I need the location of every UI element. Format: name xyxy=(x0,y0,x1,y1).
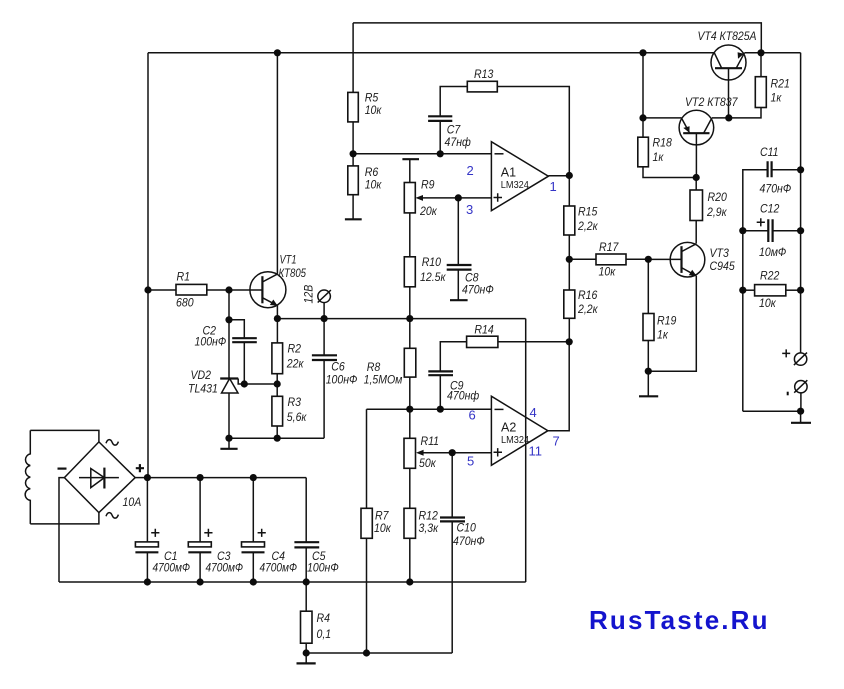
wire R11 top lead xyxy=(409,409,411,438)
shunt regulator VD2 TL431 xyxy=(188,368,238,396)
wire VT2 drive node x=643 from rail down to R18 xyxy=(642,53,644,137)
bridge plus sign xyxy=(136,464,144,472)
capacitor C12 electrolytic xyxy=(757,202,787,260)
wire R16 bottom to feedback node xyxy=(568,318,570,342)
terminal T-bar above R9 xyxy=(402,158,419,160)
svg-text:R21: R21 xyxy=(771,77,790,91)
resistor R14 xyxy=(467,323,498,348)
svg-text:10к: 10к xyxy=(599,265,617,279)
resistor R18 xyxy=(638,136,672,167)
bridge AC squiggle bottom xyxy=(106,513,118,519)
wire R14 left lead / C9 top xyxy=(440,342,466,372)
arrow into R9 wiper xyxy=(415,195,423,201)
wire VT2 base xyxy=(643,117,681,119)
wire minus terminal stub xyxy=(800,393,802,411)
transformer secondary winding xyxy=(25,430,30,524)
wire C1 top lead (bus x=147.4) xyxy=(146,478,148,542)
capacitor C6 xyxy=(312,355,358,386)
potentiometer R11 xyxy=(404,434,439,470)
svg-text:100нФ: 100нФ xyxy=(195,335,227,349)
resistor R12 xyxy=(404,508,439,538)
ground at output minus xyxy=(800,411,802,422)
bridge diode symbol xyxy=(79,468,119,489)
svg-text:R14: R14 xyxy=(474,323,493,337)
wire C2 jog from node to cap top xyxy=(229,320,244,338)
arrow into R11 wiper xyxy=(416,450,424,456)
svg-text:6: 6 xyxy=(469,408,476,423)
svg-text:11: 11 xyxy=(529,444,543,459)
wire transformer bottom to bridge xyxy=(30,513,99,524)
wire R15 bottom / R16 top with R17 tap xyxy=(568,235,570,290)
svg-text:5: 5 xyxy=(467,454,474,469)
svg-text:10к: 10к xyxy=(374,521,392,535)
terminal output plus xyxy=(782,349,807,365)
capacitor C1 electrolytic xyxy=(135,529,190,575)
svg-text:2,9к: 2,9к xyxy=(706,205,727,219)
transistor VT3 C945 xyxy=(670,242,735,277)
wire ground return y=653 xyxy=(306,652,452,654)
wire R20 top lead xyxy=(695,178,697,191)
terminal 12V xyxy=(302,285,331,304)
wire bridge minus output down left bus xyxy=(59,478,64,582)
resistor R21 xyxy=(755,77,790,108)
wire VT3 base xyxy=(648,258,681,260)
svg-text:1,5МОм: 1,5МОм xyxy=(364,372,403,386)
wire bottom bus y=582 xyxy=(59,581,526,583)
wire C6 vertical bottom xyxy=(323,360,325,438)
resistor R4 xyxy=(301,611,332,643)
wire A2 plus input line xyxy=(423,452,491,454)
svg-text:R15: R15 xyxy=(578,205,597,219)
potentiometer R9 xyxy=(404,178,437,219)
wire C1 bottom lead xyxy=(146,552,148,582)
svg-text:3: 3 xyxy=(466,202,473,217)
wire C6 vertical top xyxy=(323,319,325,356)
wire R3 bottom lead xyxy=(276,426,278,438)
svg-text:1к: 1к xyxy=(653,150,665,164)
svg-text:VT1: VT1 xyxy=(280,253,297,267)
wire C3 top lead xyxy=(199,478,201,542)
wire R10 bottom to mid bus xyxy=(409,287,411,319)
wire R18 bottom lead to R20 top node xyxy=(643,167,696,178)
resistor R10 xyxy=(404,255,446,287)
wire VT1 base xyxy=(229,289,262,291)
svg-text:R11: R11 xyxy=(421,434,440,448)
capacitor C7 xyxy=(428,116,471,149)
wire R2 top lead from mid bus xyxy=(276,319,278,343)
svg-text:R18: R18 xyxy=(653,136,672,150)
svg-text:VT4 КТ825А: VT4 КТ825А xyxy=(698,29,757,43)
op-amp A1 LM324 xyxy=(491,142,548,211)
svg-text:C10: C10 xyxy=(457,521,476,535)
svg-text:R4: R4 xyxy=(317,611,331,625)
svg-text:100нФ: 100нФ xyxy=(326,373,358,387)
svg-text:1к: 1к xyxy=(657,328,669,342)
capacitor C10 xyxy=(440,518,485,549)
wire A1 minus input line xyxy=(353,153,492,155)
resistor R17 xyxy=(596,240,626,279)
svg-text:12.5к: 12.5к xyxy=(420,270,446,284)
wire VT2 collector side to VT4 base node xyxy=(712,117,729,119)
wire R5 bottom to A1 inverting input y=153.8 xyxy=(352,122,354,154)
capacitor C8 xyxy=(447,265,494,297)
svg-text:10к: 10к xyxy=(365,103,383,117)
wire right bus x=800.6 down to + output terminal xyxy=(800,53,802,353)
svg-text:50к: 50к xyxy=(419,456,437,470)
svg-text:R9: R9 xyxy=(421,178,435,192)
svg-text:22к: 22к xyxy=(286,356,305,370)
wire R12 bottom to bottom bus xyxy=(409,538,411,582)
wire C8 bottom lead to T-bar xyxy=(457,270,459,301)
wire R22 left lead xyxy=(743,289,755,291)
wire A2 minus input line xyxy=(367,408,492,410)
svg-text:R16: R16 xyxy=(578,288,597,302)
wire C7 bottom lead xyxy=(439,121,441,154)
svg-text:100нФ: 100нФ xyxy=(307,560,339,574)
ground below R4 xyxy=(305,653,307,663)
resistor R19 xyxy=(643,314,676,342)
resistor R3 xyxy=(272,395,307,426)
bridge AC squiggle top xyxy=(106,440,118,446)
svg-text:A2: A2 xyxy=(501,421,516,435)
svg-text:10мФ: 10мФ xyxy=(759,245,786,259)
wire C10 bottom lead down to ground return xyxy=(451,521,453,653)
wire R6 bottom lead to open T-bar xyxy=(352,195,354,220)
resistor R6 xyxy=(348,165,383,195)
wire TL431 anode down to ground wire xyxy=(228,393,230,438)
svg-text:R1: R1 xyxy=(177,270,191,284)
svg-text:470нФ: 470нФ xyxy=(453,534,485,548)
capacitor C2 xyxy=(195,324,257,349)
wire mid bus y=318.6 xyxy=(277,318,525,320)
svg-text:680: 680 xyxy=(176,296,194,310)
wire A1 plus input line xyxy=(422,197,491,199)
svg-text:10к: 10к xyxy=(759,296,777,310)
wire C3 bottom lead xyxy=(199,552,201,582)
svg-text:R17: R17 xyxy=(599,240,619,254)
svg-text:4700мФ: 4700мФ xyxy=(153,560,191,574)
wire R11 bottom / R12 top xyxy=(409,468,411,508)
svg-text:4700мФ: 4700мФ xyxy=(206,560,244,574)
svg-text:LM324: LM324 xyxy=(501,180,530,191)
wire top rail from R5 top to right column xyxy=(353,23,761,53)
svg-text:КТ805: КТ805 xyxy=(279,266,307,280)
transistor VT4 KT825A xyxy=(698,29,757,80)
wire right branch of mid bus down to bottom bus xyxy=(525,319,527,582)
wire 12V terminal stub xyxy=(323,303,325,319)
resistor R20 xyxy=(690,190,728,221)
wire TL431 ref tail to R2/R3 junction xyxy=(238,379,277,385)
transistor VT1 KT805 xyxy=(250,253,306,308)
svg-text:10к: 10к xyxy=(365,178,383,192)
ground VD2 xyxy=(228,438,230,448)
wire R22 right lead xyxy=(786,289,801,291)
wire VT4 base lead down xyxy=(728,68,730,118)
svg-text:470нф: 470нф xyxy=(447,389,479,403)
wire transformer top to bridge xyxy=(30,430,99,442)
wire R6 top lead xyxy=(352,154,354,166)
wire A2 output loop up to feedback node xyxy=(548,342,569,431)
svg-text:2,2к: 2,2к xyxy=(577,219,598,233)
wire R19 bottom lead xyxy=(647,341,649,372)
wire R7 top from A2 minus wire corner xyxy=(366,409,368,508)
svg-text:C6: C6 xyxy=(331,360,345,374)
wire C2 bottom to ref wire xyxy=(243,342,245,384)
svg-text:VT3: VT3 xyxy=(710,246,729,260)
wire C5 top lead xyxy=(305,478,307,543)
capacitor C9 xyxy=(428,371,479,402)
wire R4 bottom lead xyxy=(305,643,307,653)
svg-text:R10: R10 xyxy=(422,255,441,269)
wire R21 top lead xyxy=(760,53,762,77)
wire C9 bottom lead xyxy=(439,375,441,409)
svg-text:VD2: VD2 xyxy=(191,368,212,382)
svg-text:47нф: 47нф xyxy=(445,135,471,149)
wire R9 top lead xyxy=(409,159,411,182)
svg-text:R2: R2 xyxy=(288,341,302,355)
svg-text:C945: C945 xyxy=(710,259,735,273)
svg-text:2: 2 xyxy=(467,163,474,178)
svg-text:TL431: TL431 xyxy=(188,382,218,396)
wire R8 top lead xyxy=(409,319,411,349)
svg-text:R13: R13 xyxy=(474,67,493,81)
wire left bus x=148 down to + rail xyxy=(147,53,149,478)
svg-text:470нФ: 470нФ xyxy=(462,283,494,297)
wire R4 top lead xyxy=(305,582,307,611)
svg-text:20к: 20к xyxy=(419,204,438,218)
wire VT1 emitter down to mid bus xyxy=(276,306,278,319)
wire R7 bottom down to ground return xyxy=(366,538,368,653)
svg-text:A1: A1 xyxy=(501,166,516,180)
bridge minus sign xyxy=(58,468,67,470)
terminal T-bar under R6 xyxy=(345,218,362,220)
resistor R5 xyxy=(348,91,383,122)
wire C12 left lead xyxy=(743,230,769,232)
capacitor C3 electrolytic xyxy=(188,529,243,575)
wire R5 drop from top rail xyxy=(352,23,354,93)
wire C8 top lead xyxy=(457,198,459,265)
wire R1 right lead to VT1 base node xyxy=(207,289,229,291)
wire R17 right lead to VT3 base node xyxy=(626,258,648,260)
wire VD2 cathode branch x=229 xyxy=(228,290,230,379)
resistor R1 xyxy=(176,270,207,310)
svg-text:R20: R20 xyxy=(708,190,727,204)
wire C12 right lead xyxy=(773,230,801,232)
wire C5 bottom lead xyxy=(305,547,307,582)
svg-text:VT2 КТ837: VT2 КТ837 xyxy=(685,95,738,109)
capacitor C5 xyxy=(294,542,338,574)
svg-text:2,2к: 2,2к xyxy=(577,302,598,316)
wire C10 top lead xyxy=(451,453,453,518)
resistor R13 xyxy=(467,67,497,92)
wire VT1 collector up to rail xyxy=(276,53,278,274)
terminal output minus xyxy=(787,380,808,395)
svg-text:R19: R19 xyxy=(657,314,676,328)
resistor R22 xyxy=(755,269,786,311)
svg-text:C12: C12 xyxy=(760,202,779,216)
wire R13 right lead down to A1 output node xyxy=(497,87,569,176)
resistor R7 xyxy=(361,508,392,538)
wire bridge plus output xyxy=(135,477,147,479)
capacitor C11 xyxy=(760,145,792,196)
svg-text:4700мФ: 4700мФ xyxy=(260,560,298,574)
op-amp A2 LM324 xyxy=(491,396,548,465)
wire bottom of VD2 cell y=438.2 to C6 xyxy=(229,437,324,439)
wire + rail y=477.6 to C5 xyxy=(147,477,306,479)
ground below R19 xyxy=(647,371,649,396)
transistor VT2 KT837 xyxy=(679,95,738,145)
svg-text:3,3к: 3,3к xyxy=(419,521,440,535)
wire output bottom y=411.2 xyxy=(743,410,801,412)
wire VT2 emitter down to R20 top node xyxy=(695,133,697,177)
wire C7 top lead to R13 left xyxy=(440,87,467,117)
wire VT3 collector up to R20 xyxy=(695,221,697,244)
resistor R8 xyxy=(364,348,416,386)
resistor R15 xyxy=(564,205,599,236)
bridge rectifier diamond xyxy=(64,442,135,513)
svg-text:C11: C11 xyxy=(760,145,779,159)
wire C11 left lead and left column x=742.8 xyxy=(743,170,768,411)
svg-text:R22: R22 xyxy=(760,269,779,283)
svg-text:7: 7 xyxy=(553,434,560,449)
terminal T-bar under C8 xyxy=(450,299,468,301)
wire R9 bottom / R10 top xyxy=(409,213,411,257)
wire R19 top lead xyxy=(647,259,649,313)
svg-text:470нФ: 470нФ xyxy=(760,182,792,196)
wire R14 right lead to A2 feedback node xyxy=(498,341,569,343)
resistor R2 xyxy=(272,341,305,373)
svg-text:R3: R3 xyxy=(288,395,302,409)
wire C11 right lead xyxy=(772,169,801,171)
svg-text:10А: 10А xyxy=(123,495,142,509)
wire main +raw rail y=52.8 (left bus corner to VT4) xyxy=(148,52,714,54)
svg-text:5,6к: 5,6к xyxy=(287,410,308,424)
svg-text:0,1: 0,1 xyxy=(317,627,332,641)
wire R2 bottom / R3 top xyxy=(276,374,278,397)
svg-text:12В: 12В xyxy=(302,285,316,304)
wire R21 bottom lead to VT4 base node xyxy=(729,108,761,118)
wire C4 top lead xyxy=(252,478,254,542)
wire R1 left lead from bus xyxy=(148,289,176,291)
resistor R16 xyxy=(564,288,599,318)
svg-text:1к: 1к xyxy=(771,91,783,105)
wire rail y=52.8 VT4 emitter to right bus corner xyxy=(745,52,801,54)
wire A1 output xyxy=(548,175,569,177)
wire R15 top lead from A1 output node xyxy=(568,176,570,207)
svg-text:1: 1 xyxy=(550,179,557,194)
svg-text:RusTaste.Ru: RusTaste.Ru xyxy=(589,605,770,635)
wire R17 left lead xyxy=(569,258,596,260)
svg-text:LM324: LM324 xyxy=(501,435,530,446)
wire R8 bottom to A2 minus wire xyxy=(409,377,411,409)
capacitor C4 electrolytic xyxy=(242,529,298,575)
wire VT3 emitter down and left to R19 bottom node xyxy=(648,276,696,371)
wire C4 bottom lead xyxy=(252,552,254,582)
svg-text:4: 4 xyxy=(530,405,537,420)
